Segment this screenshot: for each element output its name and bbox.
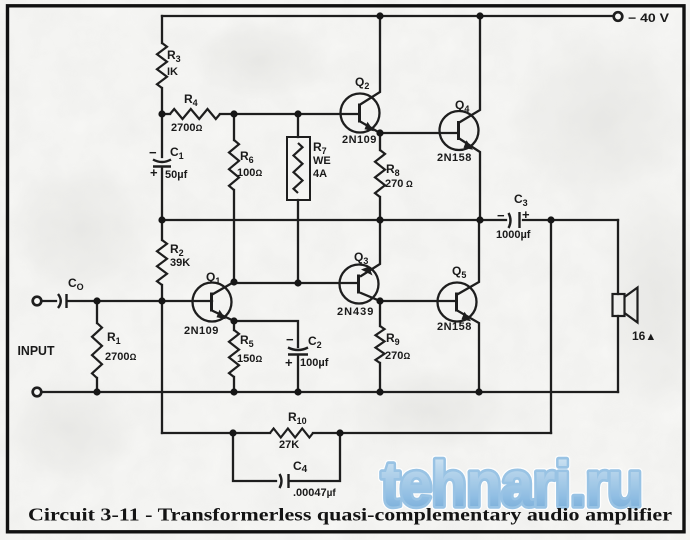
node R9 bottom on ground rail <box>376 388 383 395</box>
svg-text:−: − <box>497 208 505 223</box>
svg-text:WE: WE <box>313 155 331 167</box>
node R2 bottom / feedback on input line <box>158 297 165 304</box>
node R7 top junction <box>294 110 301 117</box>
transistor Q5 (2N158) <box>438 283 477 322</box>
svg-text:INPUT: INPUT <box>18 344 55 358</box>
resistor R6 (100 ohm) <box>229 140 239 190</box>
svg-text:−: − <box>149 145 157 160</box>
wire Q2 emitter to Q4 base <box>380 132 458 134</box>
input terminal top <box>33 297 42 306</box>
wire mid rail from C3 right plate to speaker corner <box>523 219 618 221</box>
svg-text:2N439: 2N439 <box>337 306 374 318</box>
svg-text:270 Ω: 270 Ω <box>385 178 413 190</box>
wire Q2 collector to top rail <box>361 16 380 104</box>
resistor R8 (270 ohm) <box>375 150 385 197</box>
wire left spine R3 top lead <box>161 16 163 43</box>
wire Q1 collector lead <box>213 282 234 294</box>
wire C4 loop right <box>290 433 340 481</box>
node C3 right / feedback tap <box>547 216 554 223</box>
svg-text:1000µf: 1000µf <box>496 229 531 241</box>
node R3/R4/C1 junction <box>158 110 165 117</box>
wire R10 line right <box>313 432 551 434</box>
svg-text:2N158: 2N158 <box>437 152 472 164</box>
svg-text:Circuit 3-11 - Transformerless: Circuit 3-11 - Transformerless quasi-com… <box>28 505 672 525</box>
svg-text:2N109: 2N109 <box>184 325 219 337</box>
node Q1 collector / R6 bottom <box>230 278 237 285</box>
svg-text:270Ω: 270Ω <box>385 350 410 362</box>
transistor Q2 (2N109) <box>341 94 380 133</box>
wire Q3 collector lead <box>361 293 380 301</box>
wire left spine C1 bottom to R2 top <box>161 167 163 240</box>
capacitor C0 <box>58 294 61 308</box>
wire R8 top lead <box>379 133 381 150</box>
wire R8 bottom lead <box>379 197 381 220</box>
transistor Q4 (2N158) <box>440 111 479 150</box>
node R7 bottom on Q3 base line <box>294 279 301 286</box>
speaker (16 ohm) <box>613 288 638 323</box>
wire R4 right lead to Q2 base <box>220 113 359 115</box>
svg-text:+: + <box>150 165 158 180</box>
wire R5 top lead <box>233 321 235 330</box>
svg-text:4A: 4A <box>313 168 327 180</box>
wire Q3 emitter up to mid rail <box>361 220 380 276</box>
svg-text:− 40 V: − 40 V <box>628 11 669 25</box>
svg-text:2N158: 2N158 <box>437 321 472 333</box>
node R6 top junction <box>230 110 237 117</box>
wire Q4 collector to top rail <box>460 16 480 122</box>
node Q1 emitter / R5 / C2 <box>230 317 237 324</box>
node Q5 emitter on ground rail <box>475 388 482 395</box>
wire C2 bottom lead <box>297 355 299 392</box>
wire Q2 emitter lead <box>361 122 380 133</box>
wire feedback vertical from C3 output node <box>550 220 552 433</box>
wire R9 top lead <box>379 301 381 326</box>
capacitor C4 (.00047uF) <box>280 474 282 488</box>
node R5 bottom on ground rail <box>230 388 237 395</box>
svg-text:IK: IK <box>167 66 178 78</box>
wire Q5 collector up to mid rail <box>458 220 479 294</box>
svg-text:2700Ω: 2700Ω <box>171 122 202 134</box>
node Q4 emitter / C3 left on mid rail <box>476 216 483 223</box>
resistor R2 (39K) <box>157 240 167 285</box>
node R8 bottom on mid rail <box>376 216 383 223</box>
resistor R10 (27K) <box>270 429 313 438</box>
svg-text:100µf: 100µf <box>300 357 329 369</box>
transistor Q3 (2N439) <box>340 265 379 304</box>
wire mid rail from left spine to C3 left plate <box>162 219 506 221</box>
node left spine mid rail junction <box>158 216 165 223</box>
svg-text:50µf: 50µf <box>165 169 188 181</box>
wire R6 bottom lead to Q1 collector node <box>233 190 235 282</box>
wire R7 bottom lead to Q3 base line <box>297 200 299 283</box>
svg-text:2700Ω: 2700Ω <box>105 351 136 363</box>
resistor R5 (150 ohm) <box>229 330 239 377</box>
node Q2 collector on top rail <box>376 12 383 19</box>
watermark tehnari.ru <box>381 448 642 520</box>
wire R4 left lead <box>162 113 170 115</box>
svg-text:−: − <box>286 332 294 347</box>
wire top supply rail <box>162 15 614 17</box>
wire speaker bottom drop <box>617 316 619 392</box>
input terminal bottom <box>33 388 42 397</box>
node Q4 collector on top rail <box>476 12 483 19</box>
resistor R1 (2700 ohm) <box>92 323 102 378</box>
wire R9 bottom lead <box>379 363 381 392</box>
node R10 right / C4 junction <box>336 429 343 436</box>
capacitor C1 (50uF) <box>153 160 171 163</box>
wire R5 bottom lead <box>233 377 235 392</box>
svg-text:100Ω: 100Ω <box>237 167 262 179</box>
wire feedback drop from input node down to R10 line <box>161 301 163 433</box>
capacitor C3 (1000uF) <box>509 213 511 228</box>
wire Q4 emitter down to mid rail <box>460 139 480 220</box>
resistor R7 (WE 4A, boxed) <box>294 143 303 193</box>
svg-text:.00047µf: .00047µf <box>293 487 336 499</box>
transistor Q1 (2N109) <box>193 283 232 322</box>
svg-text:16▲: 16▲ <box>632 329 656 343</box>
svg-text:150Ω: 150Ω <box>237 353 262 365</box>
wire ground bottom rail <box>41 391 618 393</box>
wire Q1 emitter to C2 branch <box>234 321 298 347</box>
wire R7 top lead <box>297 114 299 137</box>
supply terminal -40V <box>614 12 623 21</box>
wire R1 top lead <box>96 301 98 323</box>
node Q3 collector / Q5 base / R9 <box>376 297 383 304</box>
resistor R4 (2700 ohm) <box>170 109 220 119</box>
svg-text:27K: 27K <box>279 439 299 451</box>
wire Q1 emitter lead <box>213 311 234 321</box>
wire R6 top lead <box>233 114 235 140</box>
wire R10 line left <box>162 432 270 434</box>
wire left spine R3 bottom to C1 <box>161 88 163 157</box>
wire C0 to Q1 base <box>68 300 212 302</box>
resistor R9 (270 ohm) <box>376 326 385 363</box>
svg-text:+: + <box>522 207 530 222</box>
wire R1 bottom lead <box>96 378 98 392</box>
wire Q3 collector to Q5 base <box>380 300 456 302</box>
node R1 bottom on ground rail <box>93 388 100 395</box>
capacitor C2 (100uF) <box>288 348 308 351</box>
wire input terminal to C0 <box>41 300 56 302</box>
svg-text:+: + <box>285 355 293 370</box>
svg-text:39K: 39K <box>170 257 190 269</box>
node R10 left / C4 junction <box>229 429 236 436</box>
wire left spine R2 bottom to input node <box>161 285 163 301</box>
node R1 top on input line <box>93 297 100 304</box>
node Q2 emitter / Q4 base / R8 <box>376 129 383 136</box>
svg-text:2N109: 2N109 <box>342 134 377 146</box>
wire C4 loop left <box>233 433 276 481</box>
wire speaker top drop <box>617 220 619 294</box>
node C2 bottom on ground rail <box>294 388 301 395</box>
resistor R3 (1K) <box>157 43 167 88</box>
wire Q5 emitter down to ground rail <box>458 311 479 392</box>
wire Q1 collector to Q3 base <box>234 282 358 284</box>
